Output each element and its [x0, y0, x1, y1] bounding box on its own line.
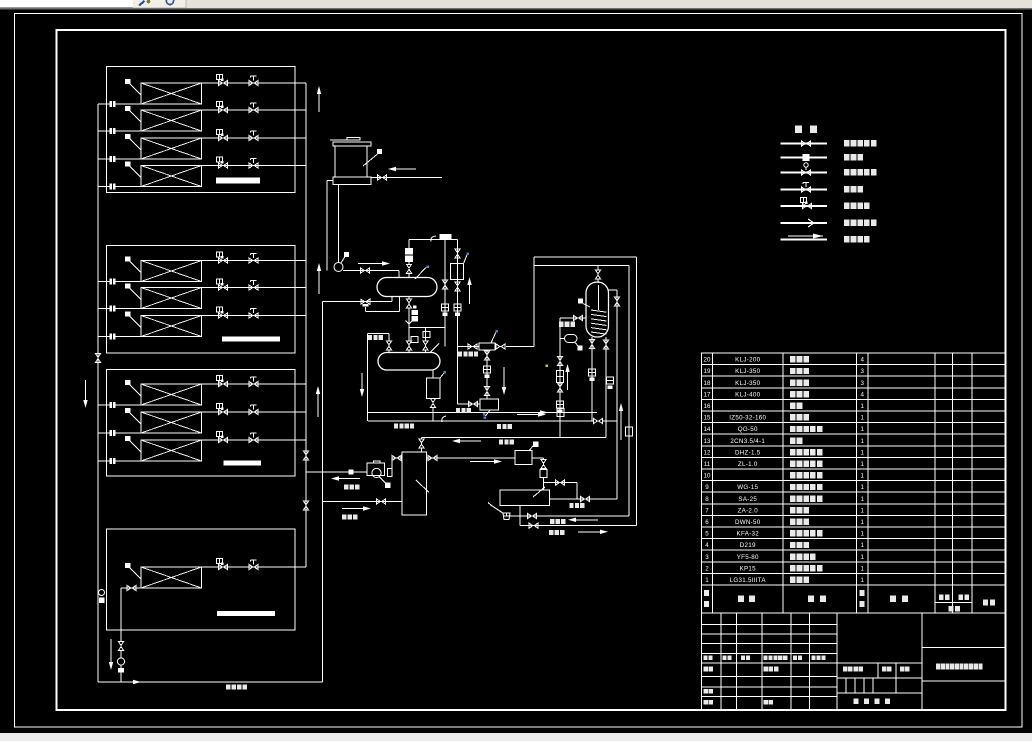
return pipe E1-4: [98, 186, 141, 188]
label hot gas 2: [497, 424, 501, 429]
riser x322: [322, 302, 324, 682]
valve on hot gas: [594, 418, 603, 423]
condenser vessel: [377, 278, 437, 297]
hook mark: [431, 236, 436, 242]
drops to receiver: [388, 350, 390, 353]
svg-text:14: 14: [704, 426, 711, 433]
BOM header split: [935, 602, 972, 604]
intercooler vessel: [586, 282, 609, 337]
svg-text:17: 17: [704, 391, 711, 398]
air cooler E1-4: [141, 166, 202, 187]
svg-text:KP15: KP15: [740, 565, 757, 572]
svg-text:5: 5: [705, 531, 709, 538]
stop valve E3-1b: [249, 381, 258, 386]
toolbar icon plot: [138, 0, 145, 6]
svg-text:1: 1: [861, 565, 865, 572]
up arrow x469: [469, 285, 471, 304]
legend line 2: [781, 157, 828, 159]
equalizer stub: [368, 333, 390, 335]
connector E2-1: [110, 279, 116, 285]
valve barrel feed: [377, 499, 386, 504]
intercooler header: [534, 256, 637, 258]
platform bar 3: [224, 461, 262, 466]
legend solenoid symbol: [802, 187, 811, 192]
connector E1-1: [110, 101, 116, 107]
device x560: [557, 371, 564, 383]
supply pipe E3-2: [202, 411, 307, 413]
legend line 3: [781, 172, 828, 174]
legend line 6: [781, 222, 828, 224]
group box 1 (KLJ-400 cold room): [107, 67, 296, 193]
toolbar edge shade: [0, 8, 1032, 10]
arrow bottom right: [517, 414, 538, 416]
legend line 5: [781, 205, 828, 207]
return pipe E2-1: [98, 281, 141, 283]
air cooler E1-2: [141, 110, 202, 131]
legend title: [795, 126, 802, 134]
up arrow 3: [317, 394, 319, 417]
economizer ref square: [533, 442, 539, 448]
ammonia pump body: [367, 463, 385, 476]
toolbar panel: [133, 0, 186, 8]
svg-text:KLJ-350: KLJ-350: [735, 368, 760, 375]
u-trap: [565, 335, 578, 343]
lp drum leader: [533, 487, 545, 497]
legend hose symbol: [808, 219, 814, 227]
legend label 7: [844, 236, 850, 242]
legend line 4: [781, 189, 828, 191]
valve under filter 2: [484, 387, 489, 396]
return pipe E4-1: [121, 587, 141, 589]
label barrel feed: [342, 515, 346, 520]
svg-text:1: 1: [861, 507, 865, 514]
valve feed r: [423, 341, 428, 350]
connector E2-3: [110, 334, 116, 340]
actuator ic L: [589, 369, 596, 376]
valve ic drain R: [603, 340, 608, 349]
handle square E2-3: [125, 311, 130, 316]
connector E1-3: [110, 156, 116, 162]
arrow on suction: [517, 412, 540, 414]
solenoid on discharge: [405, 248, 413, 262]
air cooler E1-3: [141, 138, 202, 159]
arrow line A: [576, 519, 598, 521]
ref dot a: [444, 371, 447, 374]
leader line E1-4: [130, 166, 142, 177]
handle square E4-1: [125, 563, 130, 568]
toolbar text field: [0, 0, 133, 8]
svg-text:9: 9: [705, 484, 709, 491]
svg-text:1: 1: [861, 426, 865, 433]
svg-text:KLJ-200: KLJ-200: [735, 357, 760, 364]
valve below condenser: [406, 299, 411, 308]
valve pump outlet: [361, 268, 370, 273]
water pump circle: [334, 263, 343, 272]
valve filter L: [468, 344, 477, 349]
svg-text:ZL-1.0: ZL-1.0: [738, 461, 758, 468]
tower bottom flange: [333, 177, 371, 185]
svg-text:KFA-32: KFA-32: [737, 531, 760, 538]
riser x636: [636, 257, 638, 526]
down arrow x504: [503, 367, 505, 387]
valve x445: [442, 280, 447, 289]
valve x560 a: [557, 357, 562, 366]
solenoid valve E2-3a: [219, 313, 228, 318]
BOM table grid: [702, 353, 1006, 613]
svg-text:3: 3: [861, 380, 865, 387]
intercooler handle: [578, 299, 583, 304]
compressor block: [440, 234, 452, 239]
svg-text:1: 1: [705, 577, 709, 584]
svg-text:WG-15: WG-15: [737, 484, 758, 491]
svg-text:KLJ-350: KLJ-350: [735, 380, 760, 387]
valve x457 mid: [455, 282, 460, 291]
legend valve symbol: [802, 141, 811, 146]
valve lp drum right: [581, 496, 590, 501]
solenoid valve E4-1a: [219, 564, 228, 569]
handle square E3-2: [125, 408, 130, 413]
svg-text:16: 16: [704, 403, 711, 410]
arrow barrel feed: [342, 508, 363, 510]
svg-text:2: 2: [705, 565, 709, 572]
ref dot s: [483, 413, 486, 416]
title block grid: [702, 613, 1006, 710]
drop to condenser: [408, 273, 410, 278]
svg-text:1: 1: [861, 531, 865, 538]
left drop x560: [559, 318, 561, 438]
svg-text:1: 1: [861, 461, 865, 468]
legend label 6: [844, 219, 850, 225]
return pipe E2-3: [98, 336, 141, 338]
legend flow symbol: [788, 235, 823, 237]
tower down pipe: [338, 185, 340, 263]
air cooler E2-3: [141, 316, 202, 337]
valve on drum tee: [556, 480, 565, 485]
connector E2-2: [110, 306, 116, 312]
tower drain pipe: [327, 180, 333, 182]
filter feed: [458, 346, 480, 348]
return pipe E1-1: [98, 103, 141, 105]
svg-text:1: 1: [861, 496, 865, 503]
receiver leader: [430, 344, 439, 353]
legend label 4: [844, 186, 850, 192]
solenoid valve E3-3a: [219, 437, 228, 442]
economizer: [515, 451, 532, 465]
handle square E1-1: [125, 79, 130, 84]
legend line 7: [781, 239, 828, 241]
leader line E4-1: [130, 568, 142, 579]
economizer leader: [529, 445, 534, 451]
leader line E2-3: [130, 316, 142, 327]
oil collector: [480, 399, 499, 410]
air separator feed: [432, 370, 434, 378]
valve line B: [529, 523, 538, 528]
ref dot y: [546, 365, 549, 368]
valve on supply header 1: [303, 451, 308, 460]
lp drum: [500, 490, 550, 506]
air separator: [427, 378, 441, 399]
actuator ic R: [607, 377, 614, 384]
ref dot f: [496, 330, 499, 333]
intercooler inlet: [597, 266, 599, 271]
label lp right: [570, 503, 574, 508]
hot gas line y421: [368, 420, 593, 422]
solenoid valve E2-1a: [219, 258, 228, 263]
supply pipe E2-3: [202, 315, 307, 317]
svg-text:1: 1: [861, 473, 865, 480]
barrel leader: [416, 480, 429, 493]
stop valve E3-2b: [249, 409, 258, 414]
left riser x367: [367, 334, 369, 422]
supply pipe E2-2: [202, 287, 307, 289]
platform bar 2: [222, 337, 280, 342]
pump flag: [341, 257, 345, 264]
pump outlet: [343, 270, 399, 272]
barrel top pipe: [421, 438, 423, 440]
svg-text:1: 1: [861, 484, 865, 491]
line A y516: [503, 515, 629, 517]
condenser drain: [408, 297, 410, 300]
supply pipe E1-1: [202, 82, 307, 84]
pump ref square: [385, 483, 391, 489]
svg-text:20: 20: [704, 357, 711, 364]
valve E4-1r: [127, 585, 136, 590]
valve intercooler left: [574, 315, 583, 320]
legend label 1: [844, 140, 850, 146]
stop valve E2-1b: [249, 258, 258, 263]
tower handle: [377, 149, 382, 154]
down arrow B: [110, 639, 112, 662]
stop valve E3-3b: [249, 437, 258, 442]
label hot gas: [394, 424, 398, 429]
supply pipe E1-2: [202, 109, 307, 111]
solenoid valve E2-2a: [219, 285, 228, 290]
svg-text:SA-25: SA-25: [738, 496, 757, 503]
stop valve E1-3b: [249, 135, 258, 140]
handle square E2-1: [125, 256, 130, 261]
handle square E2-2: [125, 283, 130, 288]
group box 4 (KLJ-200 cold room): [107, 529, 296, 630]
intercooler drain R: [605, 337, 607, 438]
handle square E3-3: [125, 436, 130, 441]
air cooler E2-1: [141, 261, 202, 282]
barrel right line: [427, 457, 516, 459]
label liquid main: [226, 685, 230, 690]
drum drop: [519, 506, 521, 526]
valve on return header: [95, 354, 100, 363]
line B y525: [520, 525, 637, 527]
barrel left valve: [392, 455, 401, 460]
ref dot o: [467, 253, 470, 256]
air cooler E4-1: [141, 567, 202, 588]
econ device: [540, 470, 547, 478]
connector E3-1: [110, 402, 116, 408]
label equalizer: [368, 335, 372, 340]
intercooler coil: [591, 285, 607, 334]
riser x445: [444, 240, 446, 347]
flow mark: [406, 321, 413, 325]
group box 3 (KLJ-350 cold room): [107, 370, 296, 477]
intercooler right stub: [609, 289, 618, 291]
valve below box4: [118, 642, 123, 651]
arrow to economizer: [470, 461, 494, 463]
stop valve E4-1b: [249, 564, 258, 569]
actuator x560: [557, 401, 564, 408]
solenoid valve E3-2a: [219, 409, 228, 414]
ref dot c: [427, 266, 430, 269]
svg-text:ZA-2.0: ZA-2.0: [738, 507, 759, 514]
handle square E1-4: [125, 161, 130, 166]
group box 2 (KLJ-350 cold room): [107, 246, 296, 354]
return pipe E1-3: [98, 158, 141, 160]
arrow to tower: [396, 168, 416, 170]
svg-text:15: 15: [704, 415, 711, 422]
drop mid: [408, 332, 410, 342]
intercooler drain L: [591, 337, 593, 421]
legend label 5: [844, 202, 850, 208]
down arrow A: [85, 380, 87, 400]
riser x629: [628, 266, 630, 517]
legend pneumatic symbol: [803, 203, 812, 208]
box above valve r: [423, 332, 430, 338]
svg-text:DHZ-1.5: DHZ-1.5: [735, 449, 761, 456]
return pipe E3-1: [98, 404, 141, 406]
lp drum right pipe: [550, 498, 618, 500]
svg-text:DWN-50: DWN-50: [735, 519, 761, 526]
svg-text:6: 6: [705, 519, 709, 526]
valve under filter: [484, 351, 489, 360]
air separator drop: [432, 398, 434, 400]
barrel top pipe 2: [421, 448, 423, 453]
intercooler left drop: [533, 257, 535, 347]
svg-text:2CN3.5/4-1: 2CN3.5/4-1: [730, 438, 765, 445]
drain drop: [408, 308, 410, 332]
pump feed line: [306, 471, 367, 473]
legend check symbol: [803, 154, 810, 161]
valve x617 b: [614, 297, 619, 306]
solenoid valve E1-2a: [219, 107, 228, 112]
valve x457 top: [455, 249, 460, 258]
stop valve E2-2b: [249, 285, 258, 290]
drain funnel: [503, 513, 510, 520]
filter leader: [491, 332, 496, 343]
valve tower outlet: [378, 175, 387, 180]
label line A: [550, 519, 554, 524]
valve intercooler top: [595, 270, 600, 279]
drum tee line: [544, 482, 578, 484]
svg-text:4: 4: [705, 542, 709, 549]
title block texts: [704, 655, 708, 660]
device on suction: [557, 409, 564, 417]
actuator under filter: [484, 366, 491, 373]
suction line y412: [368, 412, 597, 414]
stop valve E2-3b: [249, 313, 258, 318]
connector E3-2: [110, 430, 116, 436]
label at u-trap: [559, 322, 564, 327]
flow device below box4: [117, 658, 124, 665]
wet return y437: [422, 437, 607, 439]
filter drop: [486, 350, 488, 399]
label wet return: [499, 440, 503, 445]
riser x457: [457, 240, 459, 405]
svg-text:12: 12: [704, 449, 711, 456]
arrow line B: [578, 531, 600, 533]
tower top line: [330, 139, 360, 141]
supply pipe E3-3: [202, 439, 307, 441]
ammonia pump circle: [372, 468, 381, 477]
check valve: [361, 299, 370, 304]
valve line A: [528, 513, 537, 518]
svg-text:13: 13: [704, 438, 711, 445]
return header pipe (left): [97, 104, 99, 682]
BOM header row: [704, 590, 709, 596]
air cooler E2-2: [141, 288, 202, 309]
oil collector inlet: [458, 403, 481, 405]
air cooler E3-2: [141, 412, 202, 433]
up arrow 2: [318, 271, 320, 294]
ref dot oc: [484, 417, 487, 420]
funnel leader: [490, 505, 504, 514]
svg-text:1: 1: [861, 403, 865, 410]
valve oil collector: [469, 401, 478, 406]
tower top flange: [333, 142, 371, 146]
return pipe E3-2: [98, 432, 141, 434]
handle square E1-2: [125, 106, 130, 111]
svg-text:1: 1: [861, 577, 865, 584]
legend regulator symbol: [802, 170, 811, 175]
svg-text:1: 1: [861, 542, 865, 549]
valve econ out: [541, 460, 546, 469]
receiver vessel: [378, 353, 440, 371]
check valve bypass: [399, 297, 401, 312]
actuator x445: [442, 304, 449, 311]
air separator leader: [440, 373, 444, 378]
tower body: [335, 146, 367, 177]
device x629: [626, 427, 633, 436]
return pipe E3-3: [98, 460, 141, 462]
handle square E1-3: [125, 134, 130, 139]
valve barrel top: [419, 439, 424, 448]
stop valve E1-1b: [249, 80, 258, 85]
supply pipe E4-1: [202, 566, 307, 568]
liquid main (bottom): [98, 681, 323, 683]
svg-text:QG-50: QG-50: [738, 426, 758, 433]
econ drop: [543, 478, 545, 491]
drain tie line: [409, 327, 445, 329]
barrel feed line: [323, 501, 403, 503]
valve feed m: [406, 341, 411, 350]
svg-text:YF5-80: YF5-80: [737, 554, 759, 561]
u-trap pendant: [575, 343, 579, 347]
label pump line: [344, 485, 348, 490]
legend line 1: [781, 143, 828, 145]
svg-text:8: 8: [705, 496, 709, 503]
compressor top line: [409, 239, 458, 241]
solenoid below condenser: [412, 310, 419, 322]
up arrow 1: [318, 94, 320, 112]
toolbar icon dot: [147, 0, 151, 3]
leader line E3-3: [130, 441, 142, 452]
filter out line: [506, 346, 534, 348]
down arrow mid: [361, 373, 363, 389]
condenser leader: [415, 268, 426, 280]
oil separator: [451, 264, 464, 280]
valve x560 b: [557, 383, 562, 392]
legend label 2: [844, 154, 850, 160]
valve below air separator: [430, 399, 435, 408]
svg-text:1: 1: [861, 415, 865, 422]
toolbar icon orbit: [166, 0, 173, 5]
